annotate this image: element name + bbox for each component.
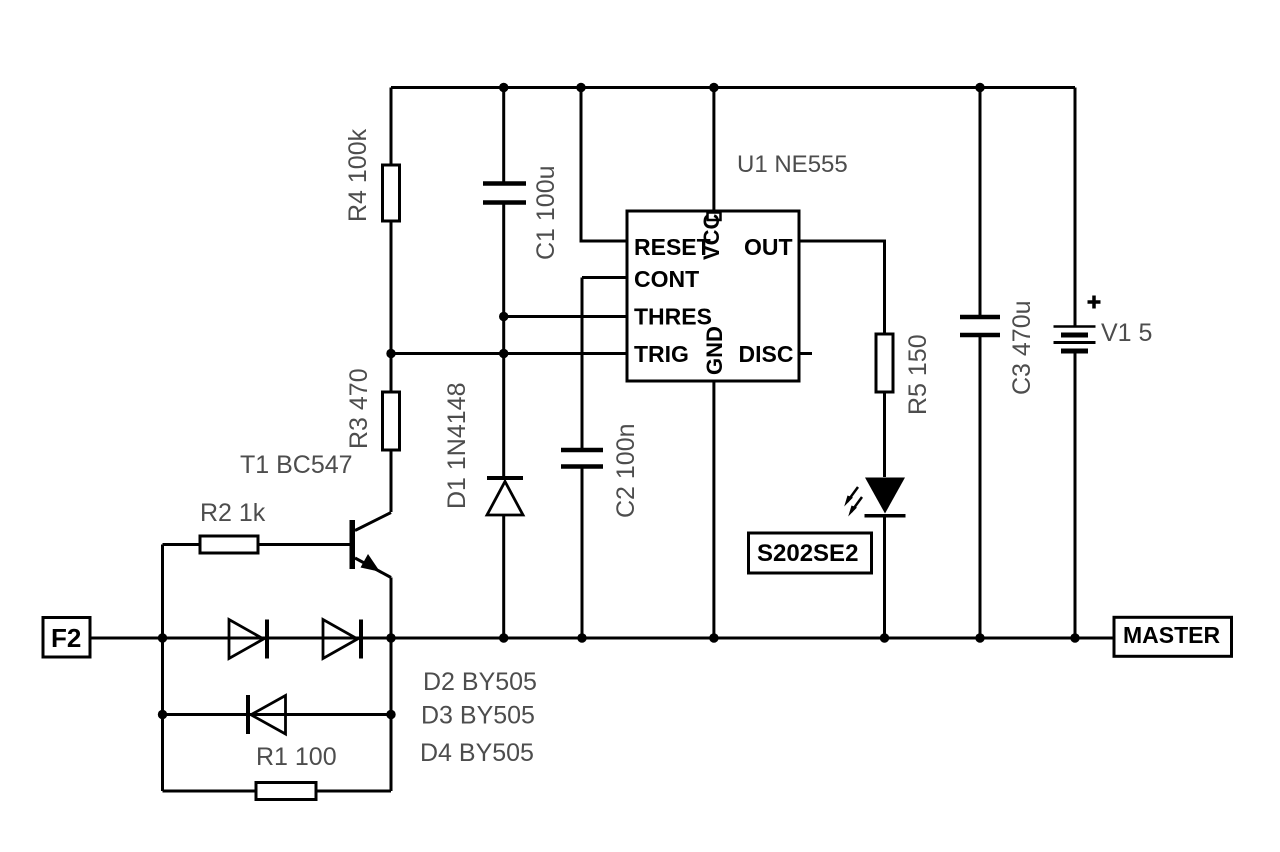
- svg-text:S202SE2: S202SE2: [757, 540, 858, 567]
- terminal MASTER: [1114, 617, 1232, 656]
- wire R1 row: [163, 790, 257, 793]
- LED arrow 2: [848, 497, 862, 517]
- wire D1 to bottom: [502, 515, 505, 638]
- svg-text:THRES: THRES: [634, 304, 712, 330]
- svg-text:R2 1k: R2 1k: [200, 499, 266, 527]
- battery V1: [1054, 327, 1096, 352]
- wire top rail: [391, 86, 1075, 89]
- node dot main-C3: [975, 633, 984, 642]
- wire C3 to bottom: [979, 337, 982, 638]
- wire TRIG: [391, 352, 627, 355]
- node dot main-LED: [880, 633, 889, 642]
- wire C2 to bottom: [581, 469, 584, 639]
- svg-text:MASTER: MASTER: [1123, 622, 1221, 648]
- wire R5 to LED: [883, 392, 886, 477]
- wire R3 to collector: [390, 450, 393, 512]
- battery plus sign: [1088, 296, 1101, 309]
- LED arrow 1: [844, 487, 858, 507]
- svg-text:U1 NE555: U1 NE555: [737, 151, 848, 178]
- wire CONT column: [582, 276, 627, 279]
- node dot TRIG-C1: [499, 349, 508, 358]
- wire R1 to right column: [316, 790, 391, 793]
- capacitor C3: [960, 317, 1000, 335]
- node dot rail-RESET: [576, 83, 585, 92]
- svg-text:R5 150: R5 150: [904, 334, 932, 415]
- svg-text:TRIG: TRIG: [634, 341, 689, 367]
- wire THRES: [504, 315, 627, 318]
- node dot D4-left: [158, 710, 167, 719]
- svg-text:DISC: DISC: [739, 341, 794, 367]
- resistor R5: [876, 334, 893, 392]
- capacitor C1: [483, 184, 526, 203]
- svg-text:D1 1N4148: D1 1N4148: [443, 383, 471, 509]
- svg-text:GND: GND: [702, 326, 727, 375]
- diode D1: [487, 478, 523, 515]
- resistor R1: [256, 783, 316, 800]
- diode D4: [248, 695, 286, 734]
- svg-text:T1 BC547: T1 BC547: [240, 451, 353, 479]
- wire R2 to base bar: [258, 543, 350, 546]
- node dot main-D1: [499, 633, 508, 642]
- wire C1 column: [502, 88, 505, 182]
- diode D2: [229, 620, 267, 659]
- resistor R4: [383, 165, 400, 221]
- node dot rail-VCC: [709, 83, 718, 92]
- wire C1 to D1: [502, 205, 505, 478]
- svg-text:D2 BY505: D2 BY505: [423, 668, 537, 696]
- svg-text:OUT: OUT: [744, 234, 793, 260]
- node dot rail-C1: [499, 83, 508, 92]
- wire left column: [161, 545, 164, 792]
- svg-text:R3 470: R3 470: [345, 368, 373, 449]
- svg-text:RESET: RESET: [634, 234, 711, 260]
- capacitor C2: [561, 450, 603, 467]
- wire DISC stub: [799, 352, 812, 355]
- wire R4 to TRIG node: [390, 221, 393, 392]
- terminal F2: [43, 618, 90, 658]
- wire C3 column: [979, 88, 982, 316]
- diode D3: [323, 620, 361, 659]
- wire LED to bottom: [883, 517, 886, 638]
- wire GND to bottom: [712, 381, 715, 638]
- svg-text:F2: F2: [51, 623, 81, 653]
- wire V1 column top: [1074, 88, 1077, 327]
- svg-text:CONT: CONT: [634, 266, 699, 292]
- svg-text:C3 470u: C3 470u: [1008, 300, 1036, 395]
- node dot D4-right: [386, 710, 395, 719]
- node dot main-C2: [577, 633, 586, 642]
- svg-text:C1 100u: C1 100u: [532, 165, 560, 260]
- resistor R3: [383, 392, 400, 450]
- transistor T1: [350, 513, 392, 578]
- wire VCC from rail: [712, 88, 715, 212]
- wire V1 to bottom: [1074, 354, 1077, 639]
- node dot rail-C3: [975, 83, 984, 92]
- LED diode: [865, 478, 906, 516]
- node dot main-A: [158, 633, 167, 642]
- wire main horizontal: [90, 637, 1114, 640]
- resistor R2: [200, 536, 258, 553]
- wire base: [163, 543, 201, 546]
- svg-text:V1 5: V1 5: [1101, 319, 1152, 347]
- wire RESET branch: [581, 88, 627, 242]
- svg-text:R1 100: R1 100: [256, 743, 337, 771]
- svg-text:D3 BY505: D3 BY505: [421, 702, 535, 730]
- node dot main-GND: [709, 633, 718, 642]
- wire OUT to R5: [799, 241, 885, 334]
- pin VCC notch: [708, 213, 721, 221]
- node dot TRIG-R3: [386, 349, 395, 358]
- op-amp U1 box: [627, 211, 799, 381]
- node dot THRES: [499, 312, 508, 321]
- svg-text:D4 BY505: D4 BY505: [420, 739, 534, 767]
- label box S202SE2: [749, 533, 872, 573]
- wire R4 column top: [390, 88, 393, 166]
- wire D4 row: [163, 713, 392, 716]
- wire emitter column: [390, 578, 393, 792]
- node dot main-B: [386, 633, 395, 642]
- svg-text:C2 100n: C2 100n: [612, 423, 640, 518]
- svg-text:R4 100k: R4 100k: [344, 128, 372, 222]
- node dot main-V1: [1070, 633, 1079, 642]
